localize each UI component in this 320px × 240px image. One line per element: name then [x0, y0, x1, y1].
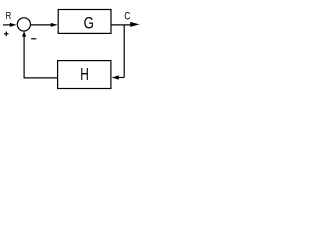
- svg-text:R: R: [6, 10, 12, 22]
- wire input R to summing junction: [3, 24, 11, 26]
- summing junction: [17, 18, 30, 31]
- plus sign: [4, 32, 9, 37]
- arrowhead into summing junction bottom: [22, 31, 26, 36]
- arrowhead into block H: [112, 75, 119, 79]
- arrowhead into block G: [51, 23, 58, 27]
- arrowhead output C: [130, 22, 139, 27]
- wire block H to feedback corner: [24, 77, 58, 79]
- background: [0, 0, 149, 110]
- wire block G to output C: [111, 24, 131, 26]
- arrowhead into summing junction: [10, 23, 17, 27]
- svg-text:C: C: [124, 11, 130, 23]
- wire takeoff to block H: [118, 77, 124, 79]
- block G: [58, 10, 111, 34]
- wire summing junction to block G: [31, 24, 52, 26]
- block H: [58, 61, 111, 89]
- wire feedback up to summing junction: [23, 36, 25, 79]
- svg-text:G: G: [84, 15, 94, 33]
- takeoff node wire down: [123, 25, 125, 78]
- minus sign: [31, 38, 36, 40]
- svg-text:H: H: [80, 64, 89, 84]
